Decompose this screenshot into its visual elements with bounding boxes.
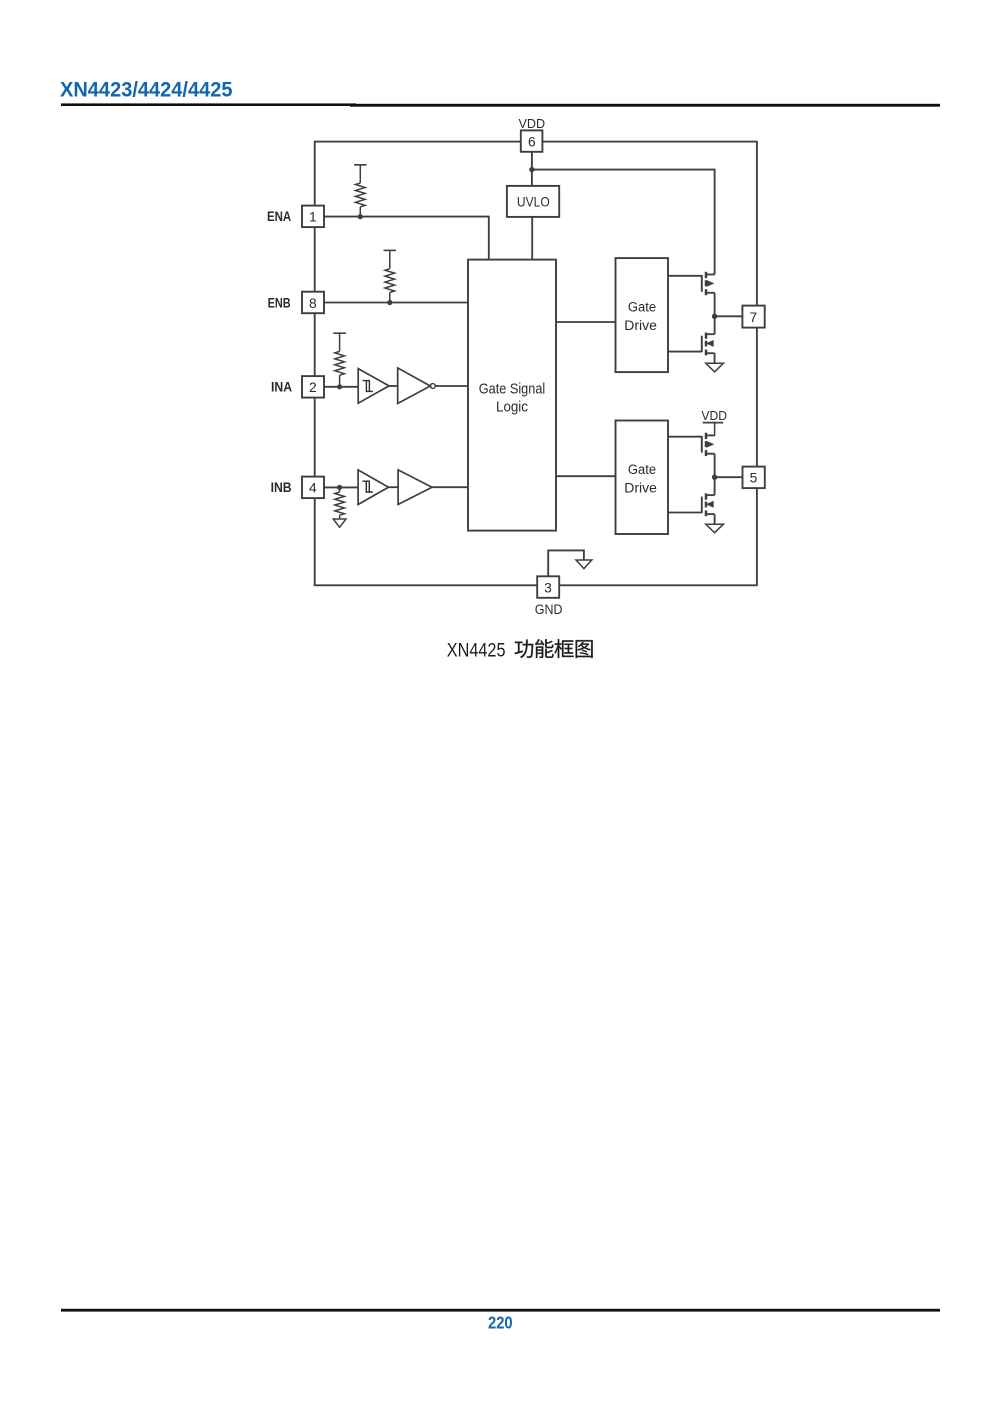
svg-text:INA: INA [271, 380, 292, 395]
svg-text:XN4423/4424/4425: XN4423/4424/4425 [60, 78, 233, 102]
pin 5 (OUTB) [743, 467, 765, 489]
node: output junction dot [712, 314, 717, 319]
pin 2 (INA) [302, 376, 324, 398]
svg-text:INB: INB [271, 480, 292, 495]
wire: U1 to inverter U2 [389, 385, 398, 387]
pin 3 (GND) [537, 576, 559, 598]
svg-text:Gate: Gate [628, 299, 656, 314]
wire: U3 to buffer U4 [389, 486, 399, 488]
ground (below R4) [333, 519, 346, 527]
svg-text:220: 220 [488, 1312, 513, 1332]
svg-text:3: 3 [544, 580, 552, 595]
wire: VDD junction to top-right rail [532, 170, 715, 275]
resistor R3 (INA pull) [333, 332, 346, 334]
node: INB junction dot [337, 485, 342, 490]
wire: output A to pin 7 [715, 315, 743, 317]
pin 6 (VDD) [521, 130, 543, 151]
schmitt trigger U1 (INA) [358, 369, 389, 404]
wire: U2 to Gate Signal Logic [435, 385, 468, 387]
wire: Gate Signal Logic to Gate Drive A [556, 321, 616, 323]
svg-text:4: 4 [309, 481, 317, 496]
transistor Q4 (N-channel low side) [714, 477, 716, 495]
pin 8 (ENB) [302, 292, 324, 314]
svg-text:7: 7 [750, 310, 758, 325]
svg-text:VDD: VDD [701, 408, 727, 423]
block Gate Drive A [616, 258, 669, 372]
pin 7 (OUTA) [742, 306, 764, 328]
ground (output stage) [706, 524, 724, 533]
svg-text:UVLO: UVLO [517, 194, 550, 210]
hysteresis mark in U3 [363, 481, 373, 492]
svg-text:GND: GND [535, 602, 563, 617]
wire: Gate Signal Logic to Gate Drive B [556, 475, 616, 477]
svg-text:Gate Signal: Gate Signal [479, 381, 546, 398]
buffer U4 (INB) [398, 470, 432, 505]
transistor Q2 (N-channel low side) [714, 316, 716, 334]
svg-text:VDD: VDD [519, 116, 546, 131]
svg-text:ENA: ENA [267, 209, 291, 224]
svg-text:2: 2 [309, 380, 317, 395]
wire: VDD junction down to UVLO [531, 170, 533, 187]
wire: INA pin to Schmitt buffer [324, 386, 358, 388]
svg-text:Drive: Drive [624, 318, 657, 333]
node: ENB junction dot [387, 300, 392, 305]
wire: ENA to Gate Signal Logic [324, 217, 489, 260]
wire: UVLO to Gate Signal Logic [531, 217, 533, 260]
wire: U4 to Gate Signal Logic [432, 486, 468, 488]
footer rule [61, 1309, 940, 1312]
resistor R4 (INB pull-down) [339, 487, 341, 492]
node: INA junction dot [337, 384, 342, 389]
svg-text:XN4425: XN4425 [447, 640, 506, 661]
inverter U2 (INA) [398, 368, 431, 404]
block Gate Drive B [616, 421, 669, 535]
svg-text:Drive: Drive [624, 481, 657, 496]
ground (GND pin) [576, 560, 592, 569]
wire: ENB to Gate Signal Logic [324, 302, 468, 304]
svg-text:Logic: Logic [496, 399, 528, 416]
header rule [61, 103, 356, 106]
transistor Q1 (P-channel high side) [668, 275, 702, 277]
ground (output stage) [706, 363, 724, 372]
block Gate Signal Logic [468, 260, 556, 531]
svg-text:6: 6 [528, 135, 536, 150]
resistor R2 (ENB pull-up) [384, 249, 397, 251]
block UVLO [507, 186, 559, 217]
wire: output B to pin 5 [715, 476, 743, 478]
svg-text:5: 5 [750, 471, 758, 486]
resistor R1 (ENA pull-up) [354, 164, 367, 166]
hysteresis mark in U1 [363, 381, 373, 392]
wire: INB pin to Schmitt buffer [324, 486, 358, 488]
outer frame of block diagram [315, 142, 757, 586]
caption chinese part: 功能框图 (glyph outlines) [515, 640, 533, 659]
svg-text:8: 8 [309, 296, 317, 311]
transistor Q3 (P-channel high side) [668, 436, 702, 438]
schmitt trigger U3 (INB) [358, 470, 388, 505]
wire: GND trace from pin 3 [548, 550, 584, 576]
pin 4 (INB) [302, 477, 324, 499]
svg-text:ENB: ENB [268, 295, 291, 310]
node: ENA junction dot [358, 214, 363, 219]
wire: pin 6 down to VDD junction [531, 152, 533, 170]
svg-text:1: 1 [309, 210, 317, 225]
svg-text:Gate: Gate [628, 462, 656, 477]
power rail bar VDD B [703, 422, 724, 424]
node: output junction dot [712, 475, 717, 480]
pin 1 (ENA) [302, 206, 324, 228]
node: VDD junction dot [529, 167, 534, 172]
